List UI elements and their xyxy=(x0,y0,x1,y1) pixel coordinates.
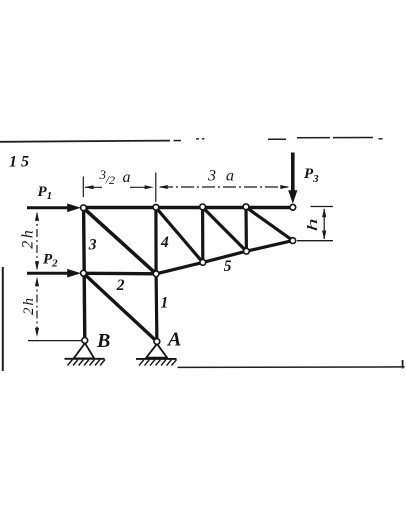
node support A pin xyxy=(154,339,160,345)
frame bottom border xyxy=(178,360,405,369)
dimension 3/2a extension line above T2 xyxy=(155,173,157,203)
node B1 xyxy=(81,270,87,276)
svg-text:B: B xyxy=(96,330,110,352)
load P3 arrow xyxy=(288,153,297,204)
node B3 xyxy=(200,260,206,266)
member top chord T1-T5 xyxy=(82,206,295,210)
member 3 left column T1-B1-B xyxy=(84,208,85,341)
member diagonal T2-B3 xyxy=(156,208,203,263)
svg-text:5: 5 xyxy=(224,258,232,275)
frame top border xyxy=(0,138,383,142)
node T2 xyxy=(153,204,159,210)
svg-text:P2: P2 xyxy=(43,252,58,270)
node support B pin xyxy=(82,338,88,344)
label 3/2a xyxy=(99,167,131,187)
dimension 2h lower (between P2 and support level) xyxy=(35,277,39,337)
member 1 vertical B2-A xyxy=(155,274,159,342)
support B xyxy=(65,343,106,365)
member diagonal B1-A xyxy=(84,273,157,341)
dimension 3a line dash-dot with arrowheads xyxy=(159,185,290,189)
member diagonal T3-B4 xyxy=(203,207,247,251)
svg-text:2h: 2h xyxy=(19,228,36,249)
dimension extension line at support level xyxy=(28,340,82,342)
member diagonal T4-B5 xyxy=(246,207,293,240)
node T4 xyxy=(243,204,249,210)
svg-text:P3: P3 xyxy=(304,166,319,185)
load P2 arrow xyxy=(27,269,81,278)
member 5 bottom chord inclined B2-B3-B4-B5 xyxy=(156,241,293,274)
member vertical T3-B3 xyxy=(201,207,204,262)
node B5 xyxy=(290,238,296,244)
svg-text:1: 1 xyxy=(161,295,169,312)
svg-text:15: 15 xyxy=(9,154,33,171)
member 2 bottom chord B1-B2 xyxy=(83,272,156,276)
svg-text:P1: P1 xyxy=(38,184,53,202)
node B2 xyxy=(153,271,159,277)
support A xyxy=(136,344,177,366)
node T3 xyxy=(200,204,206,210)
node B4 xyxy=(244,248,250,254)
member diagonal T1-B2 xyxy=(84,208,157,274)
svg-text:a: a xyxy=(123,169,131,186)
dimension 3/2a extension line above T1 xyxy=(82,177,84,198)
svg-text:A: A xyxy=(166,328,181,350)
svg-text:h: h xyxy=(304,218,321,231)
svg-text:2: 2 xyxy=(116,277,125,294)
svg-text:2h: 2h xyxy=(21,296,37,315)
svg-text:3a: 3a xyxy=(207,168,244,185)
svg-text:3: 3 xyxy=(88,237,97,254)
dimension h right side xyxy=(297,207,333,241)
dimension 3/2a line with arrowheads xyxy=(84,185,154,189)
load P1 arrow xyxy=(27,204,81,213)
dimension 2h upper (between P1 and P2) xyxy=(35,212,39,271)
node T5 xyxy=(290,204,296,210)
svg-text:4: 4 xyxy=(160,234,169,251)
member 4 vertical T2-B2 xyxy=(154,208,157,274)
svg-text:2: 2 xyxy=(109,173,115,187)
node T1 xyxy=(81,205,87,211)
member vertical T4-B4 xyxy=(244,207,248,251)
frame left border xyxy=(2,267,4,371)
